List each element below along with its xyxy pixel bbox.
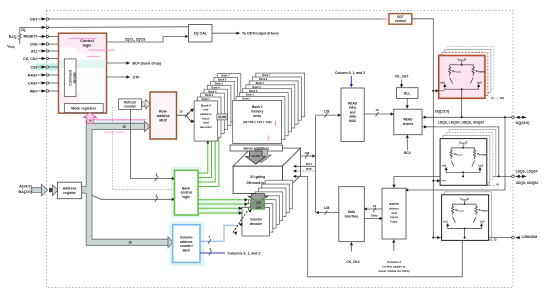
wire row MUX to bank latch stack (15) [177, 111, 192, 122]
svg-text:control: control [395, 19, 406, 23]
svg-text:interface: interface [345, 215, 359, 219]
svg-text:sw1: sw1 [442, 164, 447, 167]
svg-text:Bank 5: Bank 5 [215, 83, 224, 86]
RZQ resistor leg [18, 27, 21, 44]
svg-text:Address: Address [63, 187, 77, 191]
svg-text:Bank 0: Bank 0 [252, 105, 263, 109]
svg-text:(32,768 x 128 x 128): (32,768 x 128 x 128) [243, 120, 272, 124]
svg-text:LDM/UDM: LDM/UDM [522, 235, 538, 239]
DM pad [512, 236, 515, 239]
blue wire 3 Columns 0,1,and 2 [200, 252, 225, 254]
svg-text:input: input [390, 215, 398, 219]
svg-text:128: 128 [324, 206, 330, 210]
svg-text:Bank 7: Bank 7 [262, 74, 271, 77]
svg-text:CK, CK#: CK, CK# [23, 57, 37, 61]
svg-text:logic: logic [83, 44, 92, 48]
svg-text:Bank 2: Bank 2 [205, 94, 214, 97]
pink highlight line below 15-bus [104, 131, 124, 133]
svg-text:decoder: decoder [250, 222, 263, 226]
chip boundary (dash-dot) [47, 11, 514, 288]
svg-text:13: 13 [143, 103, 147, 107]
dotted line control logic to bank control [113, 107, 174, 190]
svg-text:I/O gating: I/O gating [250, 175, 265, 179]
gray address bus (vertical + 15 + 10 branches) [82, 120, 168, 245]
READ FIFO and data MUX box [341, 88, 364, 142]
svg-text:register: register [63, 191, 76, 195]
pin labels [7, 17, 38, 93]
mode registers box [64, 104, 103, 113]
I/O gating DM mask logic 3D box [233, 148, 300, 166]
main 128 vertical (read/write data) [315, 115, 317, 212]
svg-text:Row-: Row- [159, 109, 167, 113]
svg-text:BC4: BC4 [404, 151, 411, 155]
svg-text:sw2: sw2 [478, 164, 483, 167]
svg-text:A12: A12 [31, 49, 38, 53]
control logic box [59, 33, 107, 113]
wire CKE pin [38, 43, 41, 45]
16,384 fat arrow [251, 150, 271, 163]
svg-text:Bank 4: Bank 4 [212, 86, 221, 89]
wire 128 up to READ FIFO [316, 114, 338, 116]
svg-text:(1, 2): (1, 2) [490, 238, 497, 242]
DQS ODT circuit front box [440, 139, 487, 186]
wire BC4 into I/O gating [296, 165, 315, 167]
wire RAS# pin [38, 74, 41, 76]
svg-text:Data: Data [348, 210, 355, 214]
svg-text:LDQS, LDQS#, UDQS, UDQS#: LDQS, LDQS#, UDQS, UDQS# [438, 121, 485, 125]
wire DQS internal [422, 127, 499, 176]
svg-text:Bank 6: Bank 6 [259, 78, 268, 81]
svg-text:decoder: decoder [200, 125, 213, 129]
svg-text:32,768: 32,768 [218, 115, 226, 119]
svg-text:READ: READ [403, 118, 413, 122]
svg-text:ZQ CAL: ZQ CAL [194, 32, 208, 36]
wordline stubs between latch and array stacks [218, 94, 256, 121]
svg-text:ZQCL, ZQCS: ZQCL, ZQCS [125, 38, 146, 42]
svg-text:RAS#: RAS# [28, 73, 38, 77]
bank 0 memory array box [233, 100, 282, 143]
svg-text:MUX: MUX [349, 119, 357, 123]
wire ODT pin [38, 18, 41, 20]
svg-text:3: 3 [156, 173, 158, 177]
svg-text:RESET#: RESET# [24, 35, 38, 39]
svg-text:7: 7 [209, 236, 211, 240]
DQS pads [512, 175, 515, 178]
svg-text:OTF: OTF [133, 75, 141, 79]
svg-text:Mode registers: Mode registers [71, 107, 96, 111]
svg-text:↑128: ↑128 [254, 206, 261, 210]
svg-text:ODT: ODT [30, 17, 38, 21]
16 arrow into mode registers (pink) [84, 112, 97, 123]
svg-text:Bank 3: Bank 3 [249, 90, 258, 93]
DQ ODT circuit stack echoes [448, 47, 494, 90]
svg-text:lower nibble for BC4): lower nibble for BC4) [378, 269, 409, 273]
wire ODT control to right-side vertical [412, 19, 434, 238]
wire ZQCL,ZQCS control->ZQ CAL [107, 36, 186, 42]
column decoder stack (echoes) [245, 180, 292, 232]
svg-text:A[14:0]: A[14:0] [19, 185, 32, 189]
svg-text:DQ[15:0]: DQ[15:0] [435, 110, 449, 114]
wire DLL to READ drivers [406, 98, 408, 105]
BC4 arrow into READ drivers [406, 138, 408, 150]
svg-text:16: 16 [373, 204, 377, 208]
wire DM/write 128 into I/O gating + bottom rail [296, 176, 462, 276]
128 up/down boxes [251, 200, 265, 205]
svg-text:and: and [350, 110, 356, 114]
svg-text:sw2: sw2 [480, 221, 485, 224]
svg-text:Bank 6: Bank 6 [218, 79, 227, 82]
dashed diagonal w/ arrows into column decoder stack (redrawn) [233, 205, 252, 233]
svg-text:UDQS, UDQS#: UDQS, UDQS# [516, 181, 539, 185]
gray arrow I/O gating to column decoder [248, 194, 268, 203]
bus hollow arrowhead 15 into row MUX [145, 121, 151, 131]
svg-text:array: array [253, 114, 261, 118]
CK,CK# arrow into data interface [350, 245, 352, 251]
row-address MUX box [150, 92, 177, 139]
green wires bank control to row latch stack [198, 131, 219, 187]
svg-text:memory: memory [251, 110, 264, 114]
svg-text:ZQ: ZQ [21, 28, 26, 32]
A[14:0] BA[2:0] input bus [32, 188, 42, 193]
svg-text:Bank 7: Bank 7 [221, 75, 230, 78]
svg-text:RZQ: RZQ [9, 35, 17, 39]
svg-text:Column 0, 1, and 2: Column 0, 1, and 2 [335, 71, 365, 75]
svg-text:3: 3 [209, 248, 211, 252]
wire DM pad line [433, 237, 511, 239]
pink highlight ticks in memory array [274, 120, 276, 126]
svg-text:128: 128 [324, 109, 330, 113]
DQS pad wire across + junctions [462, 172, 464, 176]
svg-text:CS#: CS# [31, 65, 38, 69]
svg-text:WE#: WE# [30, 89, 38, 93]
PINS-LEFT [18, 19, 389, 91]
wire ZQ CAL output [212, 32, 236, 34]
svg-text:Control: Control [80, 39, 94, 43]
svg-text:(select upper or: (select upper or [382, 265, 406, 269]
wire DQ write path down to WRITE drivers [408, 117, 505, 190]
svg-text:(1, ..., 16): (1, ..., 16) [491, 96, 504, 100]
wire DQS pad line through ODT block [394, 176, 512, 188]
wire WE# pin [38, 90, 41, 92]
Column 2 arrow into WRITE drivers [393, 243, 395, 252]
svg-text:WRITE: WRITE [389, 202, 399, 206]
svg-text:latch: latch [183, 249, 190, 253]
svg-text:FIFO: FIFO [349, 106, 357, 110]
svg-text:sw1: sw1 [443, 221, 448, 224]
svg-text:data: data [349, 115, 356, 119]
svg-text:16: 16 [88, 119, 92, 123]
wire 128 data interface to vertical [319, 212, 339, 214]
svg-text:logic: logic [182, 195, 190, 199]
pink highlight line above 15-bus [88, 119, 146, 121]
highlight CS# (cyan) [36, 63, 59, 70]
wire OTF output [107, 76, 127, 78]
dashed diagonal into column decoder stack [233, 205, 252, 233]
green wires bank control to column decoder stack [198, 200, 245, 213]
svg-text:CK, CK#: CK, CK# [395, 75, 409, 79]
svg-text:counter: counter [124, 105, 136, 109]
svg-text:Data: Data [371, 213, 378, 217]
svg-text:LDQS, LDQS#: LDQS, LDQS# [516, 170, 538, 174]
wire RESET# pin [38, 35, 41, 37]
svg-text:10: 10 [128, 241, 132, 245]
wire CAS# pin [38, 82, 41, 84]
svg-text:drivers: drivers [389, 206, 400, 210]
wires 16 Data between data interface and WRITE drivers [367, 208, 382, 210]
wire address bus tap to bank control (3) [92, 195, 172, 199]
address register box [58, 182, 82, 199]
svg-text:and: and [203, 121, 209, 125]
pink highlight strokes in control logic [69, 38, 115, 56]
svg-text:15: 15 [179, 110, 183, 114]
svg-text:decode: decode [73, 72, 77, 83]
cyan highlight washes [93, 121, 268, 266]
wire 128 I/O gating to vertical [301, 155, 313, 157]
svg-text:MUX: MUX [159, 118, 167, 122]
svg-text:BC4 (burst chop): BC4 (burst chop) [133, 61, 161, 65]
svg-text:Column: Column [250, 218, 262, 222]
svg-text:drivers: drivers [403, 122, 414, 126]
wire CS# pin [38, 66, 41, 68]
svg-text:CKE: CKE [30, 42, 38, 46]
BANK CONTROL LOGIC box [175, 170, 199, 215]
svg-text:128: 128 [304, 151, 309, 155]
svg-text:3: 3 [156, 194, 158, 198]
svg-text:sw2: sw2 [477, 81, 482, 84]
command decode box [64, 59, 76, 97]
svg-text:sw1: sw1 [440, 81, 445, 84]
ODT control box [383, 14, 416, 25]
bank row-address latch stack (Banks 7..1 echoes) [197, 74, 240, 138]
svg-text:latch: latch [202, 116, 209, 120]
13 hollow arrow refresh->row MUX [142, 100, 150, 109]
svg-text:15: 15 [122, 125, 126, 129]
wire READ FIFO to READ drivers (16) [364, 113, 390, 115]
wire OTF into I/O gating (dotted) [296, 170, 315, 172]
svg-text:Bank 2: Bank 2 [246, 94, 255, 97]
DM ODT circuit stack echo [445, 192, 492, 238]
DLL box [397, 88, 419, 99]
wire A12 pin [38, 50, 41, 52]
WRITE drivers and input logic box [382, 188, 406, 239]
svg-text:DLL: DLL [404, 92, 411, 96]
DM pad wire junctions [464, 229, 466, 238]
refresh counter box [119, 99, 142, 110]
wire BC4 burst chop output [107, 62, 127, 64]
svg-text:CAS#: CAS# [28, 81, 38, 85]
svg-text:To ODT/output drivers: To ODT/output drivers [242, 32, 279, 36]
green arrows into column decoder (redrawn) [239, 198, 248, 214]
arrows row MUX into latch stack (redrawn on top) [190, 109, 194, 112]
svg-text:CK, CK#: CK, CK# [346, 260, 359, 264]
DM ODT circuit front box [442, 195, 489, 241]
sense amplifiers bar [230, 145, 282, 151]
svg-text:(1, ..., 4): (1, ..., 4) [488, 182, 499, 186]
DQ[15:0] pad [504, 116, 506, 118]
ZQ CAL box U2 [189, 25, 213, 43]
bank 0 row-address latch and decoder box [194, 101, 218, 141]
svg-text:row-: row- [203, 108, 210, 112]
green arrow into bank0 latch bottom [207, 142, 209, 145]
DQ ODT stub to DQ line [461, 89, 463, 117]
READ drivers box [394, 109, 422, 135]
column decoder front box [242, 208, 270, 237]
DQ ODT circuit front box [439, 56, 485, 99]
COLUMN ADDRESS COUNTER/LATCH box [173, 225, 200, 263]
svg-text:BA[2:0]: BA[2:0] [18, 190, 32, 194]
wire CK CK# pin [38, 58, 41, 60]
wire refresh counter down to bank control (3) [131, 109, 172, 178]
bus hollow arrowhead 10 into column counter [168, 237, 173, 248]
svg-text:logic: logic [390, 220, 397, 224]
svg-text:Bank 3: Bank 3 [208, 90, 217, 93]
32,768 row count box [217, 114, 228, 120]
svg-text:READ: READ [348, 102, 358, 106]
svg-text:and: and [391, 211, 397, 215]
svg-text:16: 16 [375, 108, 379, 112]
wire DQ[15:0] internal [422, 116, 512, 118]
ODT feed arrow into DQS block [432, 180, 434, 182]
ODT feed arrow into DQ block [432, 90, 434, 92]
bank memory array stack (Banks 7..1 echoes) [236, 73, 305, 140]
svg-text:Bank 5: Bank 5 [256, 82, 265, 85]
pin arrowheads [42, 17, 47, 92]
blue wire 7 column counter to column decoder [200, 225, 237, 241]
svg-text:BC4: BC4 [306, 162, 312, 166]
svg-text:address: address [157, 114, 170, 118]
svg-text:Bank 4: Bank 4 [252, 86, 261, 89]
svg-text:OTF: OTF [306, 167, 312, 171]
pin boundary circles [46, 18, 48, 92]
svg-text:Columns 0, 1, and 2: Columns 0, 1, and 2 [228, 251, 261, 255]
svg-text:16,384: 16,384 [251, 154, 260, 158]
wire ZQ pin [20, 26, 42, 28]
svg-text:Column 2: Column 2 [387, 260, 401, 264]
Data interface box [339, 187, 365, 242]
DQS ODT circuit stack echoes [449, 130, 496, 177]
svg-text:↓128: ↓128 [254, 201, 261, 205]
svg-text:DQ[15:0]: DQ[15:0] [516, 121, 530, 125]
